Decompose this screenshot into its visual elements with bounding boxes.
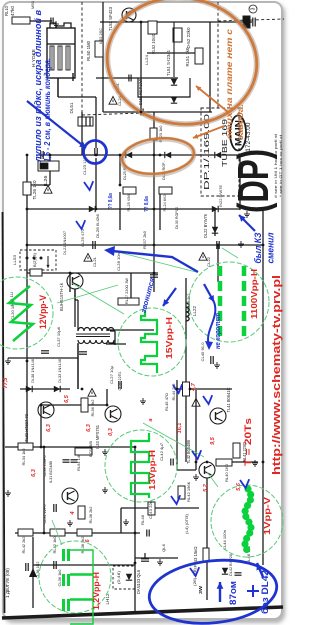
resistor on h7 xyxy=(30,269,42,276)
svg-text:12Vpp-V: 12Vpp-V xyxy=(38,295,48,329)
wire v27 x=107 xyxy=(106,389,108,405)
svg-text:87ом: 87ом xyxy=(228,581,238,605)
green leader 5 xyxy=(52,520,62,545)
svg-text:* see in GT 1 hxx xx pxrtl xt: * see in GT 1 hxx xx pxrtl xt xyxy=(278,134,283,197)
scope circle D xyxy=(105,430,177,502)
diode on h5 right xyxy=(212,206,218,212)
ground d2 xyxy=(102,487,108,493)
svg-text:1100Vpp-H: 1100Vpp-H xyxy=(250,269,259,319)
blue perp symbol xyxy=(247,585,259,597)
ground RL40 xyxy=(252,460,258,466)
blue arrow in ellipse 1 xyxy=(219,582,221,602)
capacitor CL40 xyxy=(211,356,213,364)
diode DL24 xyxy=(165,152,171,158)
capacitor CL38 xyxy=(26,563,28,571)
wire v25 x=44 xyxy=(43,447,45,533)
wire h10 y=344 xyxy=(106,343,126,345)
svg-text:CL40 91,0: CL40 91,0 xyxy=(200,342,205,362)
svg-text:6,3: 6,3 xyxy=(31,469,37,477)
connector H-YOKE notch xyxy=(50,23,71,28)
wire v15 x=121 xyxy=(120,508,122,533)
orange ellipse small glow xyxy=(120,136,195,178)
svg-text:был КЗ: был КЗ xyxy=(253,233,264,264)
capacitor CL51 xyxy=(129,75,131,82)
svg-text:47k0: 47k0 xyxy=(10,5,15,16)
svg-text:77,5: 77,5 xyxy=(3,377,9,389)
transistor TL42 xyxy=(199,462,215,478)
wire h5 y=185 xyxy=(27,184,50,186)
ground bottom-left xyxy=(67,520,73,526)
wire v10 x=120 xyxy=(119,155,121,185)
svg-text:15Vpp-H: 15Vpp-H xyxy=(165,317,174,359)
scope circle E xyxy=(211,485,283,557)
blue arrow ne korotyat xyxy=(204,284,214,302)
svg-text:IL26: IL26 xyxy=(43,175,48,187)
diode DAN103 xyxy=(126,574,132,580)
capacitor CL50a xyxy=(63,460,70,462)
svg-text:RL50 1M0: RL50 1M0 xyxy=(86,40,91,61)
orange arrow 2 xyxy=(193,126,224,138)
transformer lead top-right xyxy=(110,330,115,332)
resistor RL56 xyxy=(81,398,88,412)
diode DL51 xyxy=(171,97,177,103)
svg-text:?? 8,6в: ?? 8,6в xyxy=(144,196,150,212)
svg-text:9,5: 9,5 xyxy=(210,436,216,445)
svg-text:CL26 22П1: CL26 22П1 xyxy=(117,371,122,391)
blue curve arrow down xyxy=(208,302,215,346)
connector H-YOKE body xyxy=(47,28,75,78)
transistor TL21 xyxy=(67,273,83,289)
svg-text:CL27 10µ: CL27 10µ xyxy=(109,365,114,384)
svg-text:DL24 RGP...: DL24 RGP... xyxy=(161,160,166,180)
resistor on yoke wire xyxy=(95,41,103,57)
capacitor CL27 h xyxy=(119,381,121,389)
green leader 6 xyxy=(222,248,238,258)
svg-text:CL21: CL21 xyxy=(92,256,97,267)
ground IL33 xyxy=(140,398,146,404)
svg-text:RL38 2k2: RL38 2k2 xyxy=(80,536,85,554)
capacitor C top-left xyxy=(51,18,53,25)
green leader 0 xyxy=(57,285,118,303)
svg-text:DL33 1N4148: DL33 1N4148 xyxy=(57,358,62,383)
green leader 3 xyxy=(143,423,204,457)
connector H-YOKE band xyxy=(47,43,75,45)
wire v24 x=263 xyxy=(262,210,264,565)
wire v20 x=196 xyxy=(195,390,197,470)
svg-text:RL38 2k2: RL38 2k2 xyxy=(88,506,93,524)
svg-text:RL32 1k0: RL32 1k0 xyxy=(52,536,57,554)
ground IL31 xyxy=(5,490,11,496)
wire v7 x=96 xyxy=(95,97,97,148)
svg-text:RL52 1Θ40: RL52 1Θ40 xyxy=(151,33,156,54)
wire h20 y=565 xyxy=(33,564,135,566)
connector H-YOKE pin3 xyxy=(66,46,70,70)
wire h11 y=358 xyxy=(8,357,78,359)
svg-text:CL25 470: CL25 470 xyxy=(80,228,85,247)
warning triangle CL24 xyxy=(109,97,117,105)
capacitor CL23 in blue ring xyxy=(95,148,97,156)
svg-text:DL51: DL51 xyxy=(69,102,74,114)
svg-text:.172-43.00: .172-43.00 xyxy=(245,122,252,154)
svg-text:TL52 SF423: TL52 SF423 xyxy=(108,6,113,31)
resistor R27 xyxy=(118,298,139,305)
svg-text:RL25 К56: RL25 К56 xyxy=(126,194,131,212)
wire v22 x=215 xyxy=(214,209,216,236)
dashed boundary line top-right vertical xyxy=(217,2,219,110)
svg-text:RL27 220Ω 3W: RL27 220Ω 3W xyxy=(124,278,129,304)
resistor DL52 xyxy=(173,28,182,42)
svg-text:(L4) (0ПЗ): (L4) (0ПЗ) xyxy=(184,513,189,534)
wire v5 x=75 xyxy=(74,289,76,327)
wire h13 y=389 xyxy=(177,388,232,390)
wire RL10 to cap xyxy=(30,20,52,22)
transformer LL21 core xyxy=(76,334,110,337)
wire v18 x=177 xyxy=(176,380,178,470)
transistor TL32 xyxy=(38,402,54,418)
svg-text:DL30 RGP10: DL30 RGP10 xyxy=(174,206,179,229)
transformer lead bottom xyxy=(77,343,79,389)
transformer LL21 right coil xyxy=(78,340,114,344)
resistor RL25 xyxy=(123,187,136,194)
svg-text:IL52 2SC: IL52 2SC xyxy=(98,28,103,44)
svg-text:LL24: LL24 xyxy=(144,54,149,65)
schematic bottom border line xyxy=(2,607,283,618)
svg-text:6,3: 6,3 xyxy=(86,424,92,432)
resistor RL32b xyxy=(50,529,65,536)
svg-text:RL56 2k2: RL56 2k2 xyxy=(90,399,95,417)
svg-text:1 ДЕЛ'УЕ (08): 1 ДЕЛ'УЕ (08) xyxy=(5,567,10,598)
wire v16 x=154 xyxy=(153,112,155,292)
svg-text:RL24 6К2: RL24 6К2 xyxy=(162,194,167,212)
svg-text:DL22 BYW76: DL22 BYW76 xyxy=(203,213,208,238)
wire h3 y=112 xyxy=(103,111,212,113)
wire h17 y=470 xyxy=(177,469,196,471)
svg-text:RL42 2k2: RL42 2k2 xyxy=(21,536,26,554)
svg-text:CL43 22n: CL43 22n xyxy=(148,501,153,519)
scope circle A xyxy=(0,277,53,349)
dashed box DP xyxy=(201,108,239,196)
warning triangle RL56 xyxy=(88,389,96,397)
svg-text:3: 3 xyxy=(251,7,257,10)
svg-text:CL44 100n: CL44 100n xyxy=(222,530,227,550)
svg-text:DL38 1N4148: DL38 1N4148 xyxy=(30,358,35,383)
transistor IL31 xyxy=(62,488,78,504)
svg-text:TL32 HT307-70: TL32 HT307-70 xyxy=(24,413,29,442)
blue check 6 xyxy=(240,479,249,488)
svg-text:RL48: RL48 xyxy=(140,514,145,525)
diode DL38 xyxy=(26,386,32,392)
resistor RL33b xyxy=(77,529,92,536)
svg-text:DL21 1N4007: DL21 1N4007 xyxy=(62,230,67,255)
svg-text:CL36 1k0: CL36 1k0 xyxy=(57,569,62,587)
svg-text:5,2: 5,2 xyxy=(203,484,209,492)
svg-text:3W: 3W xyxy=(198,585,203,594)
wire diode loop xyxy=(138,78,190,97)
warning triangle CL21 xyxy=(84,254,92,262)
resistor TL26 vertical xyxy=(23,182,31,195)
wire v4 x=70 xyxy=(69,273,71,292)
ground d1 xyxy=(102,449,108,455)
resistor DL51h xyxy=(78,117,93,126)
circled 3 mark xyxy=(249,5,257,13)
capacitor CL43 xyxy=(147,530,149,537)
svg-text:TL42 B0548B: TL42 B0548B xyxy=(186,440,191,464)
svg-text:CL37 10µ6: CL37 10µ6 xyxy=(56,326,61,347)
resistor RL34 xyxy=(18,443,33,450)
wire h21 y=558 xyxy=(135,557,178,559)
capacitor on bus left xyxy=(41,151,43,159)
capacitor CL21 xyxy=(93,241,95,249)
svg-text:CL22: CL22 xyxy=(206,256,211,267)
ground d3 xyxy=(123,519,129,525)
capacitor CL26 xyxy=(41,351,49,353)
svg-text:RL34 1k0: RL34 1k0 xyxy=(21,448,26,466)
ground h5 end xyxy=(244,211,250,217)
svg-text:LL53: LL53 xyxy=(12,254,17,265)
capacitor CL36 xyxy=(54,561,56,569)
blue ring around CL23 xyxy=(84,141,107,164)
MAIN oval xyxy=(230,116,246,151)
svg-text:RL10: RL10 xyxy=(4,5,9,16)
dashed line mid top xyxy=(82,113,144,115)
wire v19 x=186 xyxy=(185,278,187,462)
resistor RL23 xyxy=(150,128,157,140)
svg-text:CL28 10n: CL28 10n xyxy=(116,253,121,271)
svg-text:RL51 1k0: RL51 1k0 xyxy=(185,47,190,67)
resistor RL64 xyxy=(75,448,92,455)
ground CL40 xyxy=(214,362,220,368)
scope circle C xyxy=(189,262,269,342)
svg-text:1,2Vpp-H: 1,2Vpp-H xyxy=(92,572,101,610)
diode DL42 xyxy=(222,568,228,574)
arrow in LL53 xyxy=(47,256,49,268)
wire v11 x=120 xyxy=(119,192,121,230)
capacitor bottom-mid xyxy=(141,559,149,561)
svg-text:LL22: LL22 xyxy=(192,305,197,316)
diode TL51 xyxy=(171,79,177,85)
svg-text:DL51 RGP10W: DL51 RGP10W xyxy=(138,79,143,105)
dashed boundary line top-right horizontal xyxy=(218,19,284,21)
connector lead down xyxy=(57,78,59,97)
wire v1 x=41 xyxy=(40,405,42,447)
blue check 0 xyxy=(84,181,93,190)
wire h0 y=22 xyxy=(100,21,252,23)
wire h12 y=389 xyxy=(20,388,70,390)
wire h14 y=405 xyxy=(41,404,107,406)
svg-text:этих на плате нет с: этих на плате нет с xyxy=(225,28,234,139)
ground top-left xyxy=(53,21,59,27)
orange ellipse small xyxy=(120,135,195,177)
diode DL28 xyxy=(89,206,95,212)
wire h2 y=78 xyxy=(96,77,178,79)
svg-text:BC548/B: BC548/B xyxy=(88,441,93,457)
capacitor CL31 xyxy=(54,504,56,512)
capacitor CL50b xyxy=(71,460,78,462)
svg-text:16,1: 16,1 xyxy=(177,423,183,434)
wire v2 x=50 xyxy=(49,155,51,185)
wire connector to ring xyxy=(58,96,96,98)
transistor TL52 xyxy=(122,8,136,22)
svg-text:0,3: 0,3 xyxy=(108,428,114,436)
svg-text:MB1: MB1 xyxy=(31,1,35,9)
inductor LL22 xyxy=(186,303,189,308)
wire v23 x=240 xyxy=(239,155,241,210)
connector H-YOKE pin1 xyxy=(50,46,54,70)
warning triangle TL41 xyxy=(192,399,200,407)
resistor RL41 xyxy=(233,443,240,458)
orange ellipse big xyxy=(99,0,265,134)
svg-text:RL42 156К: RL42 156К xyxy=(186,481,191,502)
svg-text:4: 4 xyxy=(70,511,76,515)
wire h18 y=533 xyxy=(15,532,140,534)
blue ellipse bottom xyxy=(146,554,280,625)
blue arrow zvon short xyxy=(163,288,176,306)
svg-text:D-52 22k0: D-52 22k0 xyxy=(186,27,191,49)
transformer LL21 left coil xyxy=(78,328,114,331)
green leader 1 xyxy=(72,283,124,314)
wire v3 x=58 xyxy=(57,78,59,97)
wire h15 y=447 xyxy=(5,446,135,448)
ground h5 right xyxy=(238,241,244,247)
svg-text:13Vpp-H: 13Vpp-H xyxy=(148,450,157,490)
scope circle F xyxy=(39,541,111,613)
connector LL53 pins xyxy=(26,257,43,260)
resistor FL43 xyxy=(203,548,209,562)
svg-text:6,5: 6,5 xyxy=(64,394,70,403)
resistor RL42b xyxy=(18,529,33,536)
capacitor DL42 area xyxy=(235,573,242,575)
svg-text:RL57 2k0: RL57 2k0 xyxy=(142,230,147,249)
diode DL33 xyxy=(54,386,60,392)
wire v6 x=82 xyxy=(81,112,83,155)
wire v14 x=131 xyxy=(130,273,132,298)
svg-text:(DP): (DP) xyxy=(229,149,278,213)
wire v17 x=160 xyxy=(159,192,161,230)
wire h16 y=462 xyxy=(216,461,258,463)
resistor IL26 on bus xyxy=(38,161,59,171)
svg-text:1,5 - 2 см, в люминь кондера.: 1,5 - 2 см, в люминь кондера. xyxy=(42,58,52,162)
ground bottom-mid xyxy=(157,559,163,565)
resistor RL48 xyxy=(148,502,155,515)
transistor TL41 xyxy=(210,408,226,424)
transformer lead top-left xyxy=(77,300,79,331)
green leader 4 xyxy=(207,472,218,487)
wire v29 x=207 xyxy=(206,562,208,600)
svg-text:DL42 BYV26: DL42 BYV26 xyxy=(228,553,233,576)
svg-text:IL31 BC548B: IL31 BC548B xyxy=(48,461,53,483)
scope circle B xyxy=(118,308,186,376)
capacitor top right xyxy=(243,16,250,28)
capacitor CL42 xyxy=(171,459,173,466)
wire v26 x=78 xyxy=(77,344,79,389)
wire h6 y=209 xyxy=(27,208,240,210)
svg-text:RL40 1K0: RL40 1K0 xyxy=(224,463,229,482)
blue check 2 xyxy=(203,395,212,404)
svg-text:6,3: 6,3 xyxy=(46,424,52,432)
svg-text:QL6: QL6 xyxy=(162,544,166,552)
resistor RL52 xyxy=(148,21,157,34)
svg-text:5,6: 5,6 xyxy=(236,482,242,491)
waveform E fuzzy sine xyxy=(241,485,254,553)
svg-text:RL58 1k2: RL58 1k2 xyxy=(186,293,191,311)
warning triangle near TL26 xyxy=(44,186,52,194)
resistor RL38 v xyxy=(78,506,85,519)
connector LL53 dashed box xyxy=(20,250,56,270)
dashed box DAN103 xyxy=(113,566,135,589)
connector H-YOKE pin2 xyxy=(58,46,62,70)
svg-text:?? 8,6в: ?? 8,6в xyxy=(108,193,114,209)
wire v30 x=218 xyxy=(217,245,219,282)
svg-text:а: а xyxy=(148,418,154,421)
blue arrow byl KZ xyxy=(239,215,255,231)
svg-text:сменил: сменил xyxy=(266,232,277,263)
wire v12 x=135 xyxy=(134,447,136,611)
capacitor DL22 xyxy=(217,241,219,249)
waveform A sawtooth xyxy=(9,286,33,341)
orange ellipse big glow xyxy=(99,0,265,134)
ground mid-left xyxy=(5,358,11,364)
resistor RL10 xyxy=(12,17,30,24)
wire v13 x=141 xyxy=(140,22,142,112)
blue check 1 xyxy=(76,220,85,229)
capacitor on center bus xyxy=(150,275,158,277)
wire h4 y=155 xyxy=(36,154,240,156)
blue check 7 xyxy=(173,384,182,393)
svg-text:IL33 MPS751: IL33 MPS751 xyxy=(95,424,100,449)
resistor RL51 xyxy=(195,48,203,64)
wire v9 x=103 xyxy=(102,2,104,112)
svg-text:BUHB15TH-1k: BUHB15TH-1k xyxy=(59,282,64,311)
svg-text:T = 20Тs: T = 20Тs xyxy=(243,418,253,466)
svg-text:RL45 47Ω: RL45 47Ω xyxy=(164,393,169,411)
orange arrow 1 xyxy=(196,86,228,112)
svg-text:TL41 B0641C: TL41 B0641C xyxy=(226,388,231,413)
connector H-YOKE tail xyxy=(72,73,74,81)
waveform C bars xyxy=(220,266,244,336)
capacitor C on h3 xyxy=(141,109,143,116)
blue arrow to cap xyxy=(27,101,86,148)
svg-text:DL28 B-t2t6: DL28 B-t2t6 xyxy=(95,213,100,238)
wire h7 y=245 xyxy=(27,244,263,246)
svg-text:6: 6 xyxy=(85,539,91,543)
svg-text:http://www.schematy-tv.prv.pl: http://www.schematy-tv.prv.pl xyxy=(271,275,283,475)
blue arrow in ellipse 2 xyxy=(257,563,263,577)
svg-text:4,7: 4,7 xyxy=(191,382,197,392)
svg-text:TL51 S-t2341: TL51 S-t2341 xyxy=(166,49,171,76)
warning triangle CL22 xyxy=(199,253,207,261)
diode DL22 xyxy=(212,227,218,233)
blue arrow zvon long xyxy=(112,251,198,272)
blue check 5 xyxy=(190,567,199,576)
wire h8 y=273 xyxy=(27,272,158,274)
resistor RL24 xyxy=(159,187,172,194)
svg-text:(0,46): (0,46) xyxy=(117,570,121,584)
diode on bus right xyxy=(215,152,221,158)
svg-text:TL26 1k0: TL26 1k0 xyxy=(32,180,37,200)
blue check 3 xyxy=(171,495,180,504)
svg-text:CL42 4µ7: CL42 4µ7 xyxy=(159,442,164,461)
svg-text:LH12: LH12 xyxy=(105,593,110,605)
wire v8 x=96 xyxy=(95,158,97,209)
ground h13 xyxy=(193,474,199,480)
diode DL25 xyxy=(126,152,132,158)
svg-text:1Vpp-V: 1Vpp-V xyxy=(263,496,272,535)
wire top right xyxy=(173,22,175,77)
resistor RL42r xyxy=(178,486,185,499)
svg-text:CL31 22P0: CL31 22P0 xyxy=(42,504,47,524)
LED arrow triangle xyxy=(29,568,37,577)
resistor RL40 xyxy=(216,459,232,466)
